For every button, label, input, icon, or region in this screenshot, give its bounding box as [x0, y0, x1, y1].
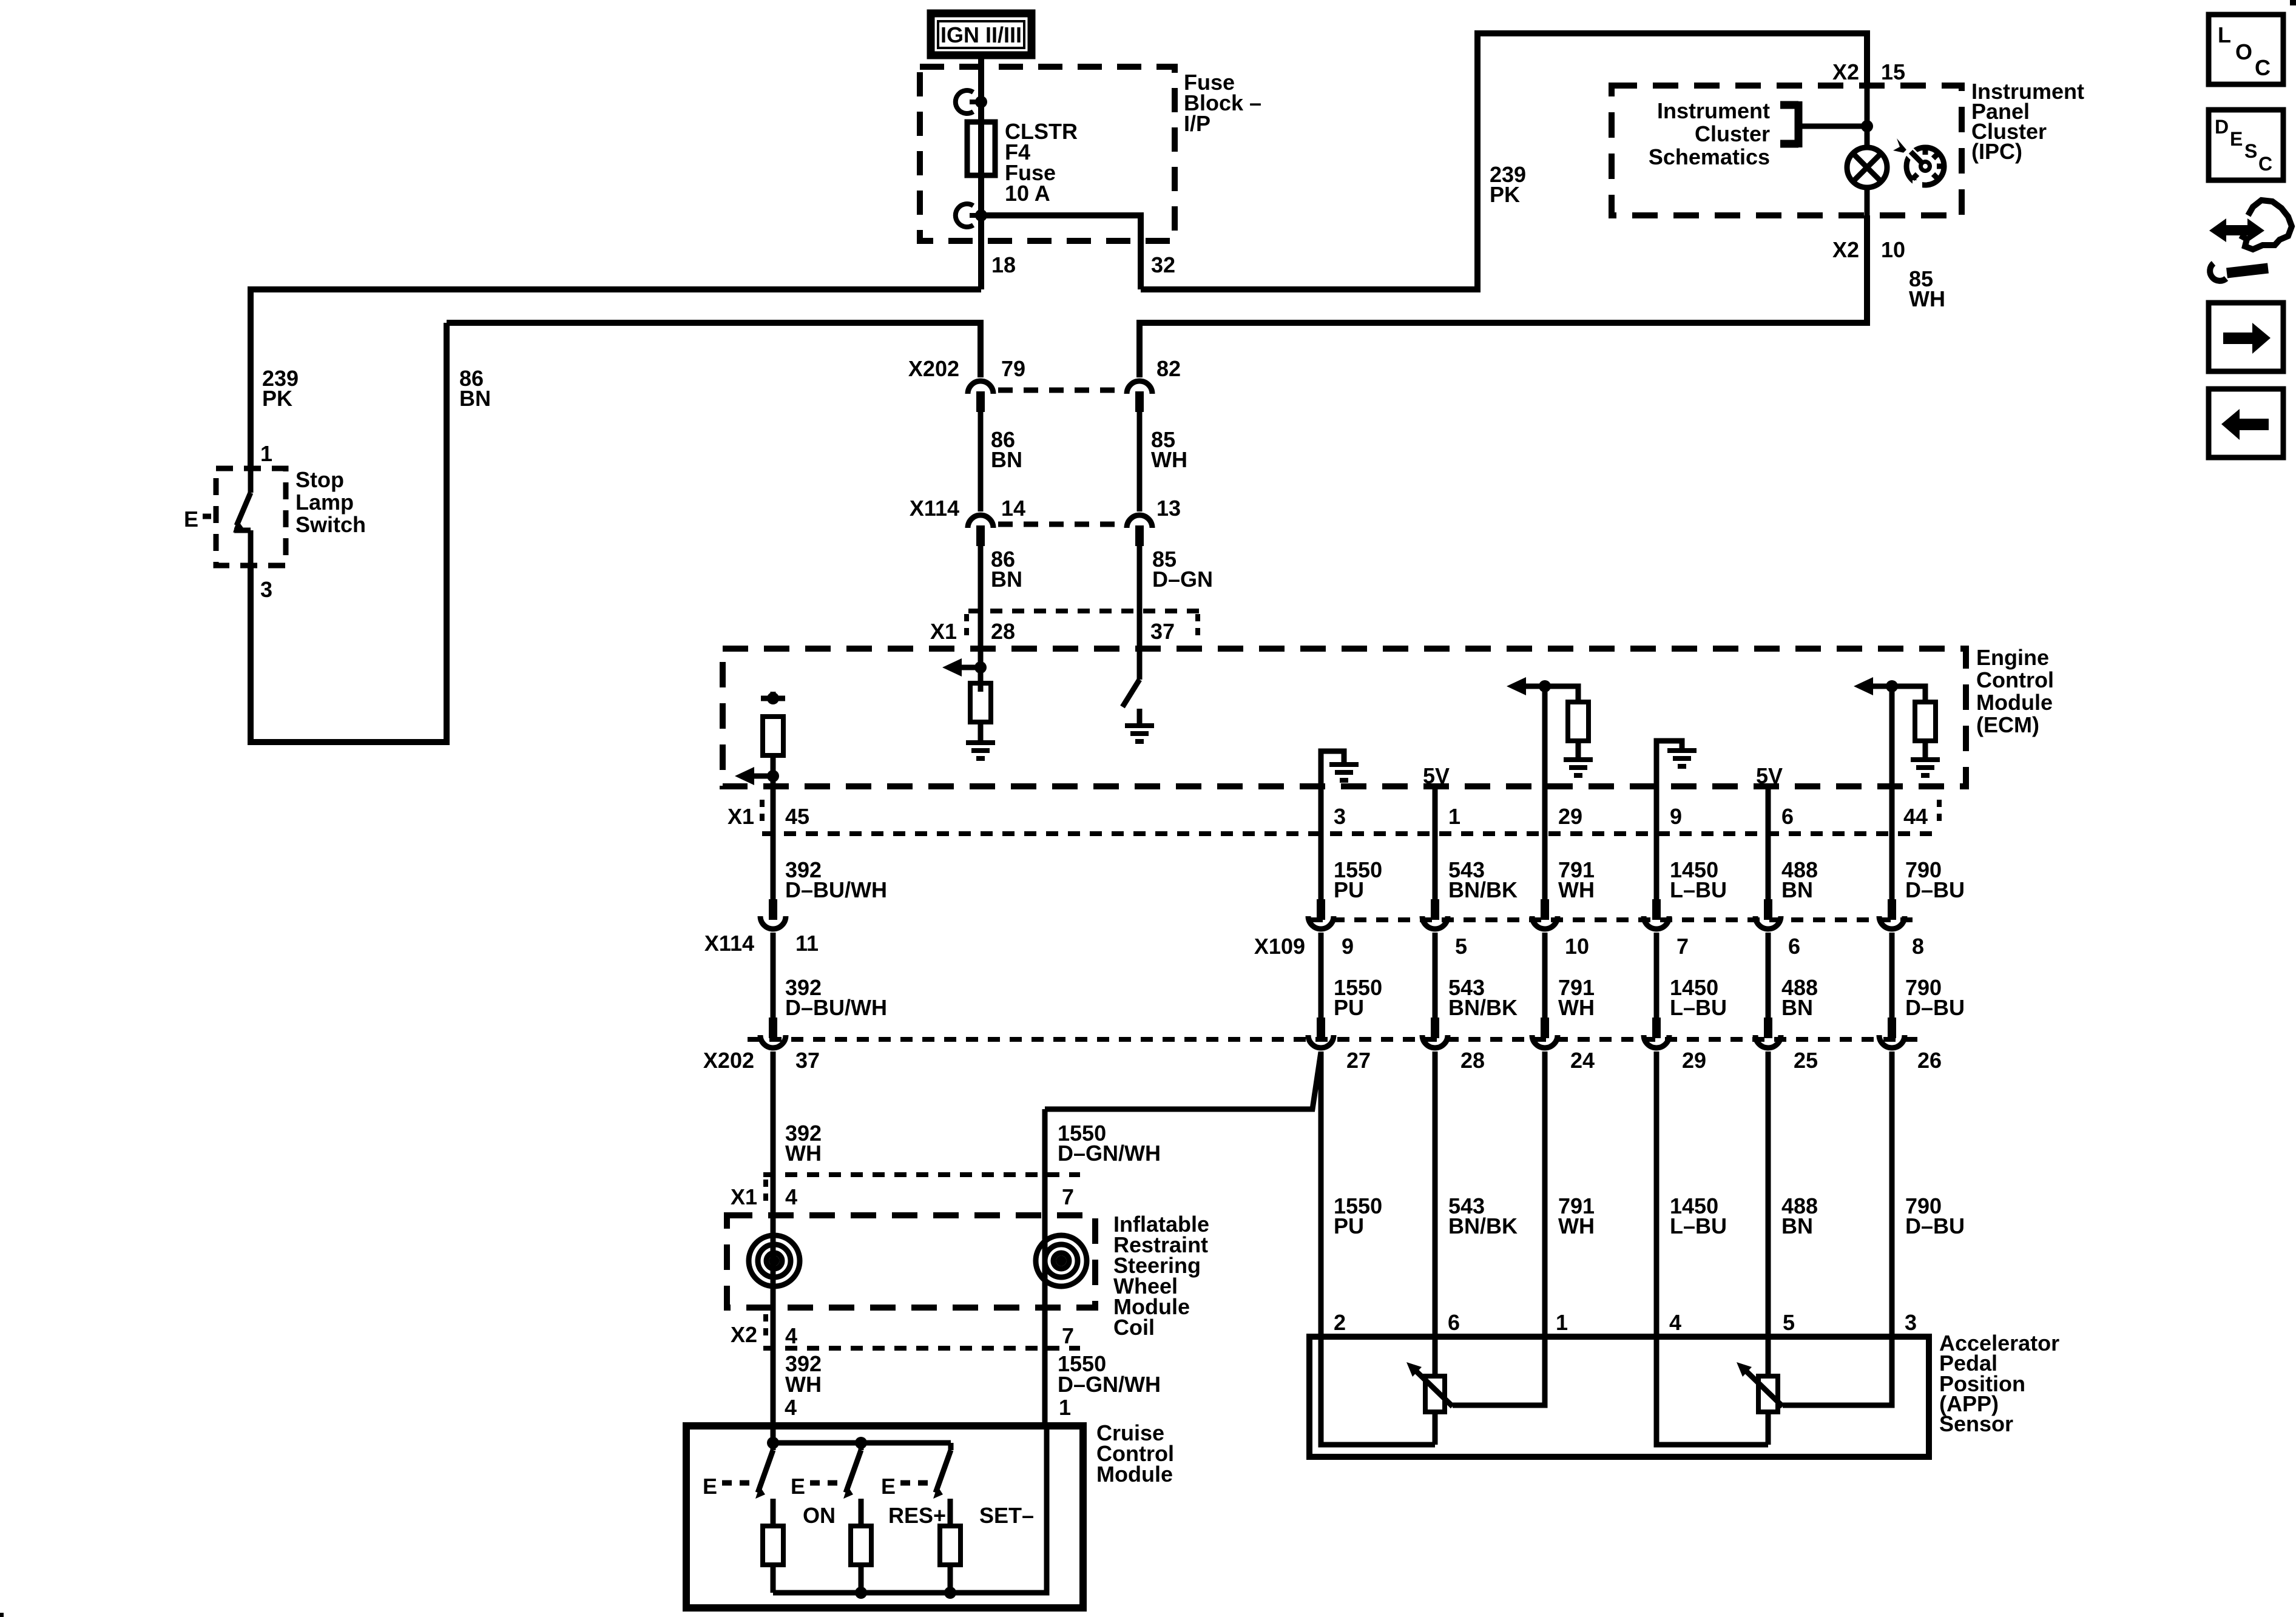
svg-text:3: 3	[1334, 804, 1346, 829]
wire IGN to bus tap	[978, 55, 984, 102]
ECM internal: pin28 pullup	[974, 661, 987, 673]
svg-text:X109: X109	[1254, 934, 1305, 959]
DESC icon	[2209, 110, 2283, 180]
svg-text:BN/BK: BN/BK	[1448, 995, 1518, 1020]
svg-text:E: E	[881, 1474, 896, 1499]
wire pin 18 down	[978, 215, 984, 289]
wire pin37 into ECM	[1137, 611, 1143, 680]
box	[2209, 15, 2283, 84]
svg-text:E: E	[703, 1474, 717, 1499]
ECM internal: pin1 5V	[1433, 786, 1438, 835]
connector X109 pin 7	[1644, 899, 1669, 929]
switch SET-	[948, 1443, 954, 1450]
X202 row dashed line	[998, 388, 1124, 393]
svg-text:29: 29	[1558, 804, 1582, 829]
wire	[758, 1450, 773, 1493]
svg-text:L–BU: L–BU	[1670, 877, 1727, 902]
svg-text:I/P: I/P	[1184, 111, 1210, 136]
svg-text:WH: WH	[785, 1372, 822, 1397]
svg-text:7: 7	[1062, 1323, 1074, 1348]
box	[967, 122, 995, 175]
resistor	[763, 717, 783, 755]
wire	[1654, 1052, 1660, 1337]
dashed line	[964, 614, 969, 642]
svg-text:24: 24	[1570, 1048, 1595, 1073]
svg-text:Cluster: Cluster	[1695, 121, 1770, 146]
arrowhead	[1893, 138, 1910, 154]
ECM internal: pin6 5V	[1766, 786, 1771, 835]
svg-text:27: 27	[1346, 1048, 1371, 1073]
wire 85 D-GN	[1137, 546, 1143, 611]
box	[2209, 110, 2283, 180]
arrowhead	[233, 519, 243, 533]
arrowhead	[1406, 1362, 1422, 1377]
circle	[1059, 1258, 1064, 1263]
svg-text:X1: X1	[728, 804, 754, 829]
connector X109 pin 5	[1422, 899, 1448, 929]
svg-text:BN: BN	[1781, 995, 1813, 1020]
wire 86 BN	[978, 412, 984, 511]
wire	[1545, 686, 1578, 702]
coil X2 pin row	[763, 1346, 1080, 1351]
svg-text:6: 6	[1448, 1310, 1460, 1335]
wire	[234, 528, 251, 533]
wire	[2240, 200, 2292, 249]
svg-text:D–BU/WH: D–BU/WH	[785, 995, 887, 1020]
APP box	[1309, 1337, 1929, 1457]
resistor	[940, 1526, 961, 1565]
wire	[773, 1440, 951, 1446]
svg-text:D–BU: D–BU	[1905, 1214, 1965, 1238]
junction	[767, 770, 779, 782]
ECM internal: pin44 pullup	[1889, 686, 1895, 835]
svg-text:L–BU: L–BU	[1670, 1214, 1727, 1238]
svg-text:X114: X114	[704, 931, 754, 956]
wire	[1576, 741, 1581, 758]
wire	[970, 213, 981, 218]
svg-text:PU: PU	[1334, 877, 1364, 902]
junction	[975, 209, 987, 221]
ECM internal: pin29 pullup	[1542, 686, 1548, 835]
svg-text:6: 6	[1788, 934, 1800, 959]
junction	[767, 692, 779, 704]
svg-text:4: 4	[785, 1323, 797, 1348]
wire	[1453, 1337, 1545, 1405]
wire	[1321, 1337, 1435, 1445]
potentiometer 2	[1766, 1337, 1771, 1376]
circle	[1906, 147, 1944, 185]
svg-text:WH: WH	[1558, 877, 1595, 902]
svg-text:Module: Module	[1976, 690, 2053, 715]
wire	[1853, 154, 1881, 181]
ground	[1564, 760, 1593, 775]
connector X109 pin 6	[1755, 899, 1781, 929]
wires X202 row down to APP sensor	[1319, 1052, 1324, 1337]
wire	[1795, 101, 1803, 147]
wire	[1889, 933, 1895, 1019]
arrowhead	[2221, 409, 2269, 440]
svg-text:1: 1	[260, 441, 272, 466]
svg-text:7: 7	[1062, 1184, 1074, 1209]
svg-text:5: 5	[1783, 1310, 1795, 1335]
connector X202 pin 79	[968, 381, 993, 412]
power tag IGN II/III	[931, 13, 1032, 55]
wire	[1937, 164, 1943, 169]
potentiometer 1	[1433, 1337, 1438, 1376]
arrowhead	[2223, 323, 2271, 354]
wire	[248, 530, 254, 565]
ECM internal: pin37 switch	[1123, 680, 1140, 707]
svg-text:S: S	[2244, 140, 2257, 162]
svg-text:29: 29	[1682, 1048, 1706, 1073]
connector X202 pin 25	[1755, 1018, 1781, 1048]
wire	[1798, 124, 1867, 129]
coil dashed box	[727, 1215, 1095, 1308]
X1 row dotted line	[968, 609, 1207, 613]
top bus	[771, 1426, 776, 1443]
svg-text:1: 1	[1448, 804, 1460, 829]
wire	[1433, 933, 1438, 1019]
svg-text:28: 28	[991, 619, 1015, 644]
wire	[1654, 933, 1660, 1019]
svg-text:1: 1	[1556, 1310, 1568, 1335]
svg-text:X2: X2	[731, 1322, 757, 1347]
wire 392 WH	[771, 1052, 776, 1426]
ECM dashed box	[723, 649, 1966, 786]
svg-text:IGN II/III: IGN II/III	[940, 22, 1022, 47]
svg-text:5V: 5V	[1756, 763, 1783, 788]
ground	[1329, 765, 1359, 780]
dashed line	[722, 1480, 757, 1486]
svg-text:9: 9	[1342, 934, 1354, 959]
svg-text:18: 18	[991, 252, 1016, 277]
wire 85 WH	[1137, 412, 1143, 511]
symbol path	[2210, 263, 2226, 281]
wire	[2227, 268, 2268, 273]
wire	[1911, 152, 1923, 164]
wire	[1744, 1369, 1783, 1406]
junction	[1861, 120, 1873, 132]
wire 86 BN to X202	[447, 323, 981, 377]
wire	[1766, 933, 1771, 1019]
resistor	[851, 1526, 871, 1565]
wire 239 PK right trunk to IPC	[1141, 33, 1867, 289]
svg-text:D–GN: D–GN	[1152, 567, 1213, 592]
svg-text:Stop: Stop	[295, 467, 344, 492]
wire	[771, 1499, 776, 1527]
svg-text:Module: Module	[1096, 1462, 1173, 1487]
wire	[1542, 1052, 1548, 1337]
svg-text:6: 6	[1781, 804, 1794, 829]
svg-text:44: 44	[1903, 804, 1928, 829]
wire	[859, 1565, 864, 1593]
circle	[772, 1258, 777, 1263]
wires X1 row to X114/X109 row	[771, 834, 776, 900]
coil X1 pin row	[763, 1172, 1080, 1177]
wire	[1656, 1337, 1768, 1445]
connector X202 pin 24	[1532, 1018, 1558, 1048]
circle	[1923, 164, 1928, 169]
svg-text:D–BU/WH: D–BU/WH	[785, 877, 887, 902]
svg-text:14: 14	[1001, 496, 1025, 521]
connector X202 pin 82	[1127, 381, 1152, 412]
circle	[758, 1244, 791, 1277]
ground	[1911, 760, 1940, 775]
svg-text:Engine: Engine	[1976, 645, 2049, 670]
box	[1903, 146, 1918, 160]
svg-text:Schematics: Schematics	[1649, 144, 1770, 169]
wire	[1923, 741, 1928, 758]
svg-text:10: 10	[1565, 934, 1589, 959]
wire	[1137, 709, 1143, 724]
svg-text:3: 3	[260, 577, 272, 602]
svg-text:Instrument: Instrument	[1657, 98, 1770, 123]
cruise box	[686, 1426, 1083, 1608]
svg-text:BN: BN	[1781, 1214, 1813, 1238]
svg-text:C: C	[2258, 153, 2272, 175]
svg-text:X2: X2	[1832, 237, 1859, 262]
wire	[1654, 835, 1660, 900]
svg-text:32: 32	[1151, 252, 1175, 277]
svg-text:D–GN/WH: D–GN/WH	[1058, 1141, 1161, 1166]
svg-text:C: C	[2255, 55, 2271, 80]
svg-text:X202: X202	[908, 356, 959, 381]
wire	[1319, 933, 1324, 1019]
switch ON	[771, 1443, 776, 1450]
wire	[1780, 101, 1798, 109]
wire	[771, 692, 776, 698]
wire	[1433, 835, 1438, 900]
svg-text:10: 10	[1881, 237, 1905, 262]
wire	[1783, 1337, 1892, 1405]
X202 row dotted line	[748, 1037, 1917, 1042]
junction	[944, 1587, 956, 1599]
svg-text:X1: X1	[930, 619, 957, 644]
indicator lamp	[1865, 86, 1870, 147]
junction	[767, 1437, 779, 1449]
bus tap hook upper	[956, 90, 973, 113]
svg-text:L: L	[2218, 22, 2231, 47]
wire	[1766, 835, 1771, 900]
resistor	[970, 683, 991, 722]
svg-text:BN/BK: BN/BK	[1448, 1214, 1518, 1238]
svg-text:4: 4	[785, 1184, 797, 1209]
bus tap hook lower	[956, 204, 973, 227]
svg-text:E: E	[184, 507, 198, 532]
ECM internal: pin45 pullup	[761, 696, 785, 701]
wire	[1865, 187, 1870, 215]
wire	[970, 100, 981, 104]
wire	[1542, 933, 1548, 1019]
fuse block dashed box	[920, 67, 1175, 241]
wire pin28 into ECM	[978, 611, 984, 692]
svg-text:15: 15	[1881, 59, 1905, 84]
connector X202 pin 29	[1644, 1018, 1669, 1048]
box	[1425, 1376, 1445, 1412]
svg-text:BN: BN	[1781, 877, 1813, 902]
wire pin45	[771, 776, 776, 834]
wire 239 PK left trunk	[251, 289, 981, 468]
svg-text:PK: PK	[262, 386, 292, 411]
wire	[1766, 1052, 1771, 1337]
dashed line	[1937, 800, 1942, 828]
wire	[846, 1450, 861, 1493]
svg-text:28: 28	[1460, 1048, 1485, 1073]
svg-text:45: 45	[785, 804, 809, 829]
wire	[1414, 1369, 1453, 1406]
svg-text:25: 25	[1794, 1048, 1818, 1073]
svg-text:2: 2	[1334, 1310, 1346, 1335]
connector X114 pin 11	[760, 899, 786, 929]
svg-text:O: O	[2235, 39, 2252, 64]
svg-text:37: 37	[795, 1048, 820, 1073]
svg-text:11: 11	[795, 931, 819, 956]
wire	[1319, 835, 1324, 900]
svg-text:9: 9	[1670, 804, 1682, 829]
wire	[1853, 154, 1881, 181]
wire	[237, 493, 251, 525]
X109 row dotted line	[1311, 917, 1917, 922]
ECM internal: pin9 signal ground	[1656, 741, 1682, 835]
wire stop lamp to 86 BN riser	[251, 323, 447, 742]
ground	[1667, 751, 1697, 766]
wire	[859, 1499, 864, 1527]
svg-text:82: 82	[1156, 356, 1181, 381]
wire 1550 D-GN/WH branch to cruise	[1045, 1052, 1321, 1109]
dashed line	[760, 800, 765, 828]
wire fuse to lower tap	[978, 175, 984, 215]
wire	[1542, 835, 1548, 900]
left arrow icon	[2209, 389, 2283, 457]
junction	[1886, 680, 1898, 692]
wire	[771, 1565, 776, 1593]
wire	[1889, 835, 1895, 900]
svg-text:PU: PU	[1334, 1214, 1364, 1238]
circle	[1847, 147, 1887, 187]
svg-text:D: D	[2215, 116, 2229, 138]
svg-text:Switch: Switch	[295, 512, 366, 537]
svg-text:4: 4	[785, 1395, 797, 1420]
svg-text:4: 4	[1669, 1310, 1681, 1335]
junction	[1539, 680, 1551, 692]
wire	[948, 1565, 953, 1593]
arrowhead	[843, 1486, 853, 1499]
svg-text:BN: BN	[459, 386, 491, 411]
IPC dashed box	[1612, 86, 1962, 215]
svg-text:X114: X114	[910, 496, 959, 521]
ECM internal: pin3 signal ground	[1321, 751, 1344, 835]
gauge icon	[1893, 138, 1944, 189]
svg-text:(ECM): (ECM)	[1976, 712, 2039, 737]
circle	[1045, 1244, 1078, 1277]
box	[2209, 303, 2283, 371]
wire 85 WH from IPC	[1140, 215, 1867, 377]
circle	[766, 1253, 782, 1269]
junction	[855, 1587, 867, 1599]
svg-text:79: 79	[1001, 356, 1025, 381]
svg-text:37: 37	[1150, 619, 1175, 644]
svg-text:ON: ON	[803, 1503, 836, 1528]
wire	[1766, 1412, 1771, 1445]
arrowhead	[755, 1486, 765, 1499]
svg-text:RES+: RES+	[888, 1503, 946, 1528]
junction	[975, 96, 987, 108]
connector X109 pin 9	[1308, 899, 1334, 929]
wire	[1892, 686, 1925, 702]
svg-text:1: 1	[1059, 1395, 1071, 1420]
wire	[1923, 149, 1928, 155]
ground	[1125, 726, 1154, 741]
dashed line	[203, 514, 218, 519]
box	[0, 1613, 4, 1617]
box	[1913, 180, 1922, 189]
wire	[1933, 174, 1938, 179]
box	[938, 21, 1024, 48]
svg-text:D–BU: D–BU	[1905, 995, 1965, 1020]
svg-text:WH: WH	[1151, 447, 1187, 472]
connector X202 pin 27	[1308, 1018, 1334, 1048]
wire to pin 32 branch	[981, 215, 1141, 289]
svg-text:BN: BN	[991, 447, 1022, 472]
connector X114 pin 14	[968, 515, 993, 546]
svg-text:L–BU: L–BU	[1670, 995, 1727, 1020]
svg-text:26: 26	[1917, 1048, 1942, 1073]
svg-text:PU: PU	[1334, 995, 1364, 1020]
wire	[1433, 1412, 1438, 1445]
svg-text:Sensor: Sensor	[1939, 1411, 2013, 1436]
fuse CLSTR F4 10A	[978, 102, 984, 215]
wire	[1913, 174, 1917, 179]
box	[1758, 1376, 1778, 1412]
svg-text:8: 8	[1912, 934, 1924, 959]
svg-text:X202: X202	[703, 1048, 754, 1073]
wire	[1933, 154, 1938, 158]
svg-text:Control: Control	[1976, 667, 2054, 692]
dashed line	[1195, 614, 1200, 642]
bottom bus	[773, 1426, 1047, 1593]
diagnostic icon (arrows + wrench)	[2209, 200, 2292, 281]
wire 1550 D-GN/WH lower	[1042, 1109, 1048, 1426]
wire 86 BN	[978, 546, 984, 611]
page corner marks	[2290, 0, 2296, 5]
circle	[1053, 1253, 1069, 1269]
svg-text:5: 5	[1455, 934, 1467, 959]
switch blade	[248, 468, 254, 493]
wire	[978, 722, 984, 741]
wire	[1433, 1052, 1438, 1337]
coil spiral right	[1036, 1235, 1087, 1286]
wires X109 row to X202 row	[771, 933, 776, 1019]
svg-text:3: 3	[1905, 1310, 1917, 1335]
svg-text:10 A: 10 A	[1005, 181, 1050, 206]
box	[2209, 389, 2283, 457]
stop lamp switch dashed box	[216, 468, 286, 565]
svg-text:E: E	[791, 1474, 805, 1499]
X114 row dashed line	[998, 522, 1124, 527]
svg-text:X1: X1	[731, 1184, 757, 1209]
arrowhead	[933, 1486, 943, 1499]
X1 row dotted line	[762, 831, 1940, 836]
svg-text:WH: WH	[1558, 1214, 1595, 1238]
connector X109 pin 8	[1879, 899, 1905, 929]
svg-text:Coil: Coil	[1113, 1315, 1155, 1340]
connector X202 pin 28	[1422, 1018, 1448, 1048]
svg-text:WH: WH	[785, 1141, 822, 1166]
wire	[936, 1450, 951, 1493]
svg-text:BN: BN	[991, 567, 1022, 592]
wire	[1889, 1052, 1895, 1337]
svg-text:SET–: SET–	[979, 1503, 1034, 1528]
